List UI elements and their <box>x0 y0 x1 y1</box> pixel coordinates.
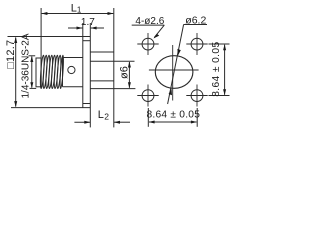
4-dia2.6 underline <box>132 24 165 26</box>
svg-text:ø6.2: ø6.2 <box>185 14 206 26</box>
1.7 arrow right-pointing <box>77 27 83 30</box>
dia6 arrow down <box>128 82 131 88</box>
svg-text:ø6: ø6 <box>118 66 130 79</box>
side view: flange top edge + sq-flange top extension line <box>8 36 91 38</box>
flange chamfer bottom <box>83 103 91 105</box>
barrel top edge <box>90 51 114 53</box>
L1 left extension line / thread start <box>40 8 42 87</box>
bottom dim arrow right <box>191 121 197 124</box>
L2 arrow right-pointing <box>84 121 90 124</box>
thread dim arrow up <box>30 56 33 62</box>
L1 arrow left <box>41 12 47 15</box>
L2 arrow left-pointing <box>114 121 120 124</box>
1.7 dim line left segment <box>68 27 82 29</box>
dimension sq 12.7 arrow down <box>14 101 17 107</box>
dimension sq 12.7 arrow up <box>14 37 17 43</box>
bottom dim extension right <box>196 108 198 127</box>
thread dim extension tick top <box>29 55 36 57</box>
L1 arrow right <box>108 12 114 15</box>
dia6.2 leader line <box>168 25 184 105</box>
body left edge <box>62 58 64 87</box>
bottom dim arrow left <box>149 121 155 124</box>
right dim extension bottom <box>209 95 230 97</box>
svg-text:8.64 ± 0.05: 8.64 ± 0.05 <box>211 41 222 96</box>
dia6.2 leader arrow top <box>177 49 180 56</box>
bottom dim line <box>149 121 197 123</box>
front view: center circle dia6.2 <box>155 56 193 89</box>
1.7 arrow left-pointing <box>91 27 97 30</box>
flange chamfer top <box>83 40 91 42</box>
svg-text:L2: L2 <box>98 109 110 121</box>
svg-text:□12.7: □12.7 <box>5 40 17 69</box>
bottom dim extension left <box>147 108 149 127</box>
L1 dim line <box>42 13 114 15</box>
barrel inner top / dia6 ext <box>90 60 134 62</box>
barrel inner bottom <box>90 80 114 82</box>
right dim arrow up <box>223 44 226 50</box>
front view: hole top-left <box>137 33 158 55</box>
flange left edge <box>82 23 84 108</box>
svg-text:4-ø2.6: 4-ø2.6 <box>135 16 164 27</box>
front view: hole top-right <box>186 33 207 55</box>
svg-text:1/4-36UNS-2A: 1/4-36UNS-2A <box>21 33 32 98</box>
dia6.2 leader arrow bottom <box>169 89 172 96</box>
1.7 dim line right segment <box>91 27 104 29</box>
front view: hole bottom-right <box>186 85 207 107</box>
body hole circle <box>68 66 75 73</box>
dia6.2 underline <box>184 24 207 26</box>
right dim line <box>224 45 226 95</box>
side view: flange bottom edge + extension line <box>11 107 90 109</box>
right dim arrow down <box>223 89 226 95</box>
4-dia2.6 leader arrow <box>154 34 160 39</box>
thread dim extension tick bottom <box>30 87 37 89</box>
end cap rectangle <box>36 58 41 87</box>
thread turns <box>40 55 64 89</box>
4-dia2.6 leader <box>154 25 164 37</box>
dimension sq 12.7 line <box>15 38 17 107</box>
thread dim line <box>31 57 33 88</box>
center circle horizontal centerline <box>149 69 199 71</box>
L2 dim line left segment <box>74 121 90 123</box>
thread dim arrow down <box>30 82 33 88</box>
flange right edge <box>89 23 91 127</box>
svg-text:8.64 ± 0.05: 8.64 ± 0.05 <box>146 110 200 121</box>
front view: hole bottom-left <box>137 85 158 107</box>
right dim extension top <box>209 43 230 45</box>
center circle vertical centerline <box>172 45 174 101</box>
dia6 arrow up <box>128 61 131 67</box>
body bottom edge <box>63 86 83 88</box>
L2 dim line right segment <box>114 121 130 123</box>
dia6 dim line <box>128 62 130 88</box>
barrel bottom / dia6 ext <box>90 88 135 90</box>
body top edge <box>63 57 83 59</box>
svg-text:L1: L1 <box>71 2 82 14</box>
barrel end / L1-L2 right extension <box>113 8 115 127</box>
svg-text:1.7: 1.7 <box>81 17 95 28</box>
